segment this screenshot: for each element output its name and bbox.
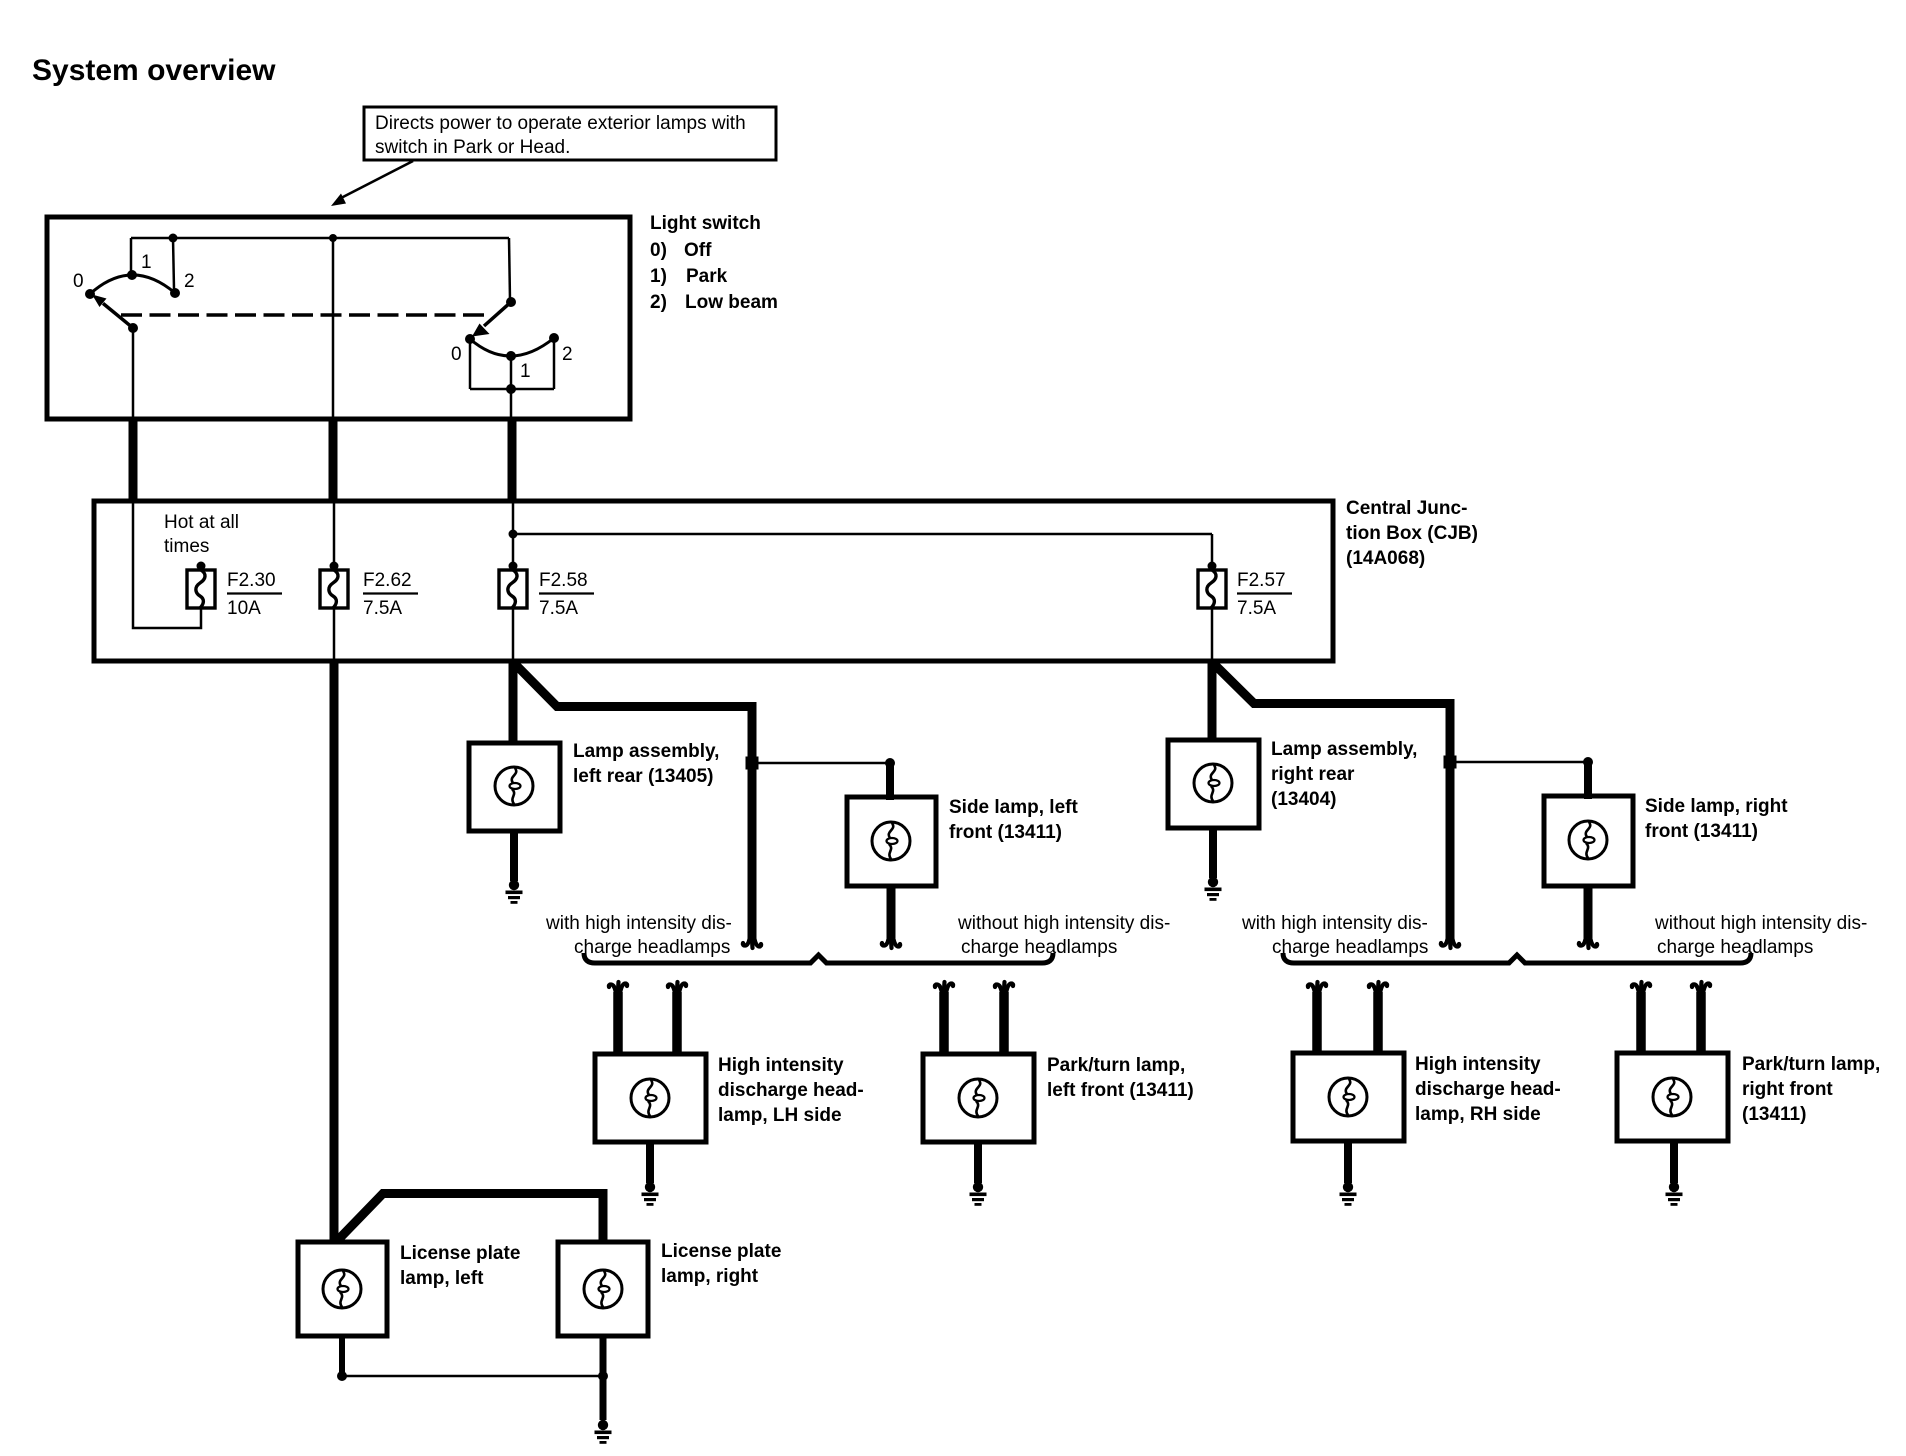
svg-text:(14A068): (14A068) [1346, 548, 1425, 569]
right switch wiper [472, 297, 516, 337]
svg-text:left rear (13405): left rear (13405) [573, 766, 713, 787]
svg-text:with high intensity dis-: with high intensity dis- [1241, 913, 1428, 934]
svg-text:Lamp assembly,: Lamp assembly, [573, 741, 719, 762]
svg-text:Off: Off [684, 240, 712, 261]
svg-text:License plate: License plate [400, 1243, 520, 1264]
wire: right license lamp to ground [600, 1336, 607, 1420]
svg-text:lamp, LH side: lamp, LH side [718, 1105, 842, 1126]
svg-text:Park/turn lamp,: Park/turn lamp, [1742, 1054, 1880, 1075]
wire: switch pole B to CJB [329, 419, 338, 503]
alternative brace (right front lamps) [1283, 953, 1751, 963]
svg-text:1): 1) [650, 266, 667, 287]
label: Side lamp, left front [949, 797, 1078, 843]
svg-text:F2.57: F2.57 [1237, 570, 1286, 591]
license plate lamp, left [298, 1242, 387, 1336]
svg-text:with high intensity dis-: with high intensity dis- [545, 913, 732, 934]
svg-text:lamp, left: lamp, left [400, 1268, 484, 1289]
svg-text:charge headlamps: charge headlamps [1272, 937, 1428, 958]
svg-text:High intensity: High intensity [1415, 1054, 1541, 1075]
svg-text:0: 0 [451, 344, 462, 365]
wire: node to side lamp left front [752, 758, 895, 800]
wire: park/turn left to ground [974, 1142, 982, 1183]
label: License plate lamp, left [400, 1243, 520, 1289]
svg-text:1: 1 [520, 361, 531, 382]
svg-text:Side lamp, left: Side lamp, left [949, 797, 1078, 818]
fuse F2.30 (F1) [187, 562, 282, 620]
side lamp, left front [847, 797, 936, 886]
high intensity discharge headlamp, LH side [595, 1054, 706, 1142]
park/turn lamp, right front [1617, 1053, 1728, 1141]
wire: F2.58 branch + node to F2.57 [509, 503, 1213, 662]
note: without HID (right) [1654, 913, 1867, 958]
wire: lamp assembly left rear to ground [510, 831, 518, 881]
ground (lamp assembly right rear) [1205, 877, 1222, 901]
svg-text:F2.58: F2.58 [539, 570, 588, 591]
svg-text:Light switch: Light switch [650, 213, 761, 234]
light switch internal bus wire [131, 234, 510, 418]
high intensity discharge headlamp, RH side [1293, 1053, 1404, 1141]
wire: F2.58 to lamp assembly left rear [509, 662, 518, 745]
label: Lamp assembly, right rear [1271, 739, 1417, 810]
svg-text:Directs power to operate exter: Directs power to operate exterior lamps … [375, 113, 746, 134]
wires: brace to HID headlamp RH [1308, 982, 1387, 1055]
wires: brace to HID headlamp LH [609, 982, 686, 1056]
svg-text:discharge head-: discharge head- [718, 1080, 864, 1101]
svg-text:Central Junc-: Central Junc- [1346, 498, 1467, 519]
fuse F2.62 (F2) [320, 562, 418, 620]
label: Park/turn lamp right front [1742, 1054, 1880, 1125]
svg-text:System overview: System overview [32, 54, 276, 87]
wire: HID RH to ground [1344, 1141, 1352, 1183]
svg-text:front (13411): front (13411) [1645, 821, 1758, 842]
label: HID headlamp RH [1415, 1054, 1561, 1125]
svg-text:License plate: License plate [661, 1241, 781, 1262]
svg-text:right front: right front [1742, 1079, 1833, 1100]
svg-text:without high intensity dis-: without high intensity dis- [1654, 913, 1867, 934]
Central Junction Box (CJB) [94, 501, 1333, 661]
svg-text:2: 2 [184, 271, 195, 292]
wire: branch to left front lamps [514, 663, 761, 948]
note: with HID (right) [1241, 913, 1428, 958]
light switch legend [650, 213, 778, 313]
svg-text:lamp, right: lamp, right [661, 1266, 759, 1287]
wire: switch pole C to CJB [508, 419, 517, 503]
svg-text:7.5A: 7.5A [539, 598, 578, 619]
svg-text:switch in Park or Head.: switch in Park or Head. [375, 137, 570, 158]
svg-text:7.5A: 7.5A [1237, 598, 1276, 619]
svg-text:Side lamp, right: Side lamp, right [1645, 796, 1788, 817]
label: License plate lamp, right [661, 1241, 781, 1287]
wire: switch pole A to CJB [129, 419, 138, 503]
svg-text:charge headlamps: charge headlamps [961, 937, 1117, 958]
note: without HID (left) [957, 913, 1170, 958]
svg-text:Hot at all: Hot at all [164, 512, 239, 533]
ground (license plate lamps) [595, 1420, 612, 1444]
alternative brace (left front lamps) [584, 953, 1053, 963]
right switch wafer contacts [451, 333, 573, 382]
svg-text:10A: 10A [227, 598, 261, 619]
svg-text:F2.30: F2.30 [227, 570, 276, 591]
svg-text:left front (13411): left front (13411) [1047, 1080, 1194, 1101]
left switch wafer contacts [73, 252, 195, 299]
svg-text:2): 2) [650, 292, 667, 313]
wire: lamp assembly right rear to ground [1209, 828, 1217, 878]
wires: brace to park/turn lamp right [1632, 982, 1710, 1055]
svg-text:Park: Park [686, 266, 728, 287]
svg-text:discharge head-: discharge head- [1415, 1079, 1561, 1100]
note box: directs power [364, 107, 776, 160]
mechanical coupling dashed link [121, 313, 490, 317]
wire: branch to right front lamps [1213, 663, 1459, 948]
svg-text:lamp, RH side: lamp, RH side [1415, 1104, 1541, 1125]
ground (park/turn lamp left) [970, 1182, 987, 1206]
wire: side lamp left front down to connector [882, 886, 900, 948]
license plate lamp, right [558, 1242, 648, 1336]
svg-text:0): 0) [650, 240, 667, 261]
svg-text:F2.62: F2.62 [363, 570, 412, 591]
wire: F2.62 to license plate lamps [330, 662, 339, 1244]
svg-text:tion Box (CJB): tion Box (CJB) [1346, 523, 1478, 544]
svg-text:charge headlamps: charge headlamps [1657, 937, 1813, 958]
label: Side lamp, right front [1645, 796, 1788, 842]
svg-text:charge headlamps: charge headlamps [574, 937, 730, 958]
label: Lamp assembly, left rear [573, 741, 719, 787]
svg-text:0: 0 [73, 271, 84, 292]
light switch box [47, 217, 630, 419]
svg-text:without high intensity dis-: without high intensity dis- [957, 913, 1170, 934]
label: Hot at all times [164, 512, 239, 557]
wire: F2.57 to lamp assembly right rear [1208, 662, 1217, 742]
svg-text:7.5A: 7.5A [363, 598, 402, 619]
label: HID headlamp LH [718, 1055, 864, 1126]
ground (park/turn lamp right) [1666, 1182, 1683, 1206]
lamp assembly, left rear [469, 743, 560, 831]
wire: ground link between license lamps [342, 1371, 608, 1381]
label: Park/turn lamp left front [1047, 1055, 1194, 1101]
svg-text:High intensity: High intensity [718, 1055, 844, 1076]
fuse F2.57 (F4) [1198, 562, 1292, 620]
wire: branch to right license lamp [337, 1194, 603, 1245]
ground (HID headlamp LH) [642, 1182, 659, 1206]
svg-text:Park/turn lamp,: Park/turn lamp, [1047, 1055, 1185, 1076]
wire: HID LH to ground [646, 1142, 654, 1183]
arrow from note box to light switch [331, 161, 413, 206]
ground (lamp assembly left rear) [506, 880, 523, 904]
svg-text:1: 1 [141, 252, 152, 273]
wire: F2.62 branch [333, 503, 336, 565]
wire: left license lamp to ground node [337, 1336, 347, 1381]
lamp assembly, right rear [1168, 740, 1259, 828]
wires: brace to park/turn lamp left [935, 982, 1013, 1056]
svg-text:(13411): (13411) [1742, 1104, 1806, 1125]
label: Central Junction Box [1346, 498, 1478, 569]
park/turn lamp, left front [923, 1054, 1034, 1142]
wire: side lamp right front down to connector [1579, 886, 1597, 948]
svg-text:front (13411): front (13411) [949, 822, 1062, 843]
svg-text:Lamp assembly,: Lamp assembly, [1271, 739, 1417, 760]
wire: node to side lamp right front [1450, 757, 1593, 799]
right switch contact drops [470, 338, 554, 417]
note: with HID (left) [545, 913, 732, 958]
wire: CJB feed to fuse F2.30 [133, 503, 201, 628]
fuse F2.58 (F3) [499, 562, 594, 620]
svg-text:2: 2 [562, 344, 573, 365]
left switch wiper [92, 295, 138, 418]
svg-text:Low beam: Low beam [685, 292, 778, 313]
svg-text:right rear: right rear [1271, 764, 1355, 785]
wire: park/turn right to ground [1670, 1141, 1678, 1183]
svg-text:times: times [164, 536, 209, 557]
svg-text:(13404): (13404) [1271, 789, 1337, 810]
side lamp, right front [1544, 796, 1633, 886]
ground (HID headlamp RH) [1340, 1182, 1357, 1206]
